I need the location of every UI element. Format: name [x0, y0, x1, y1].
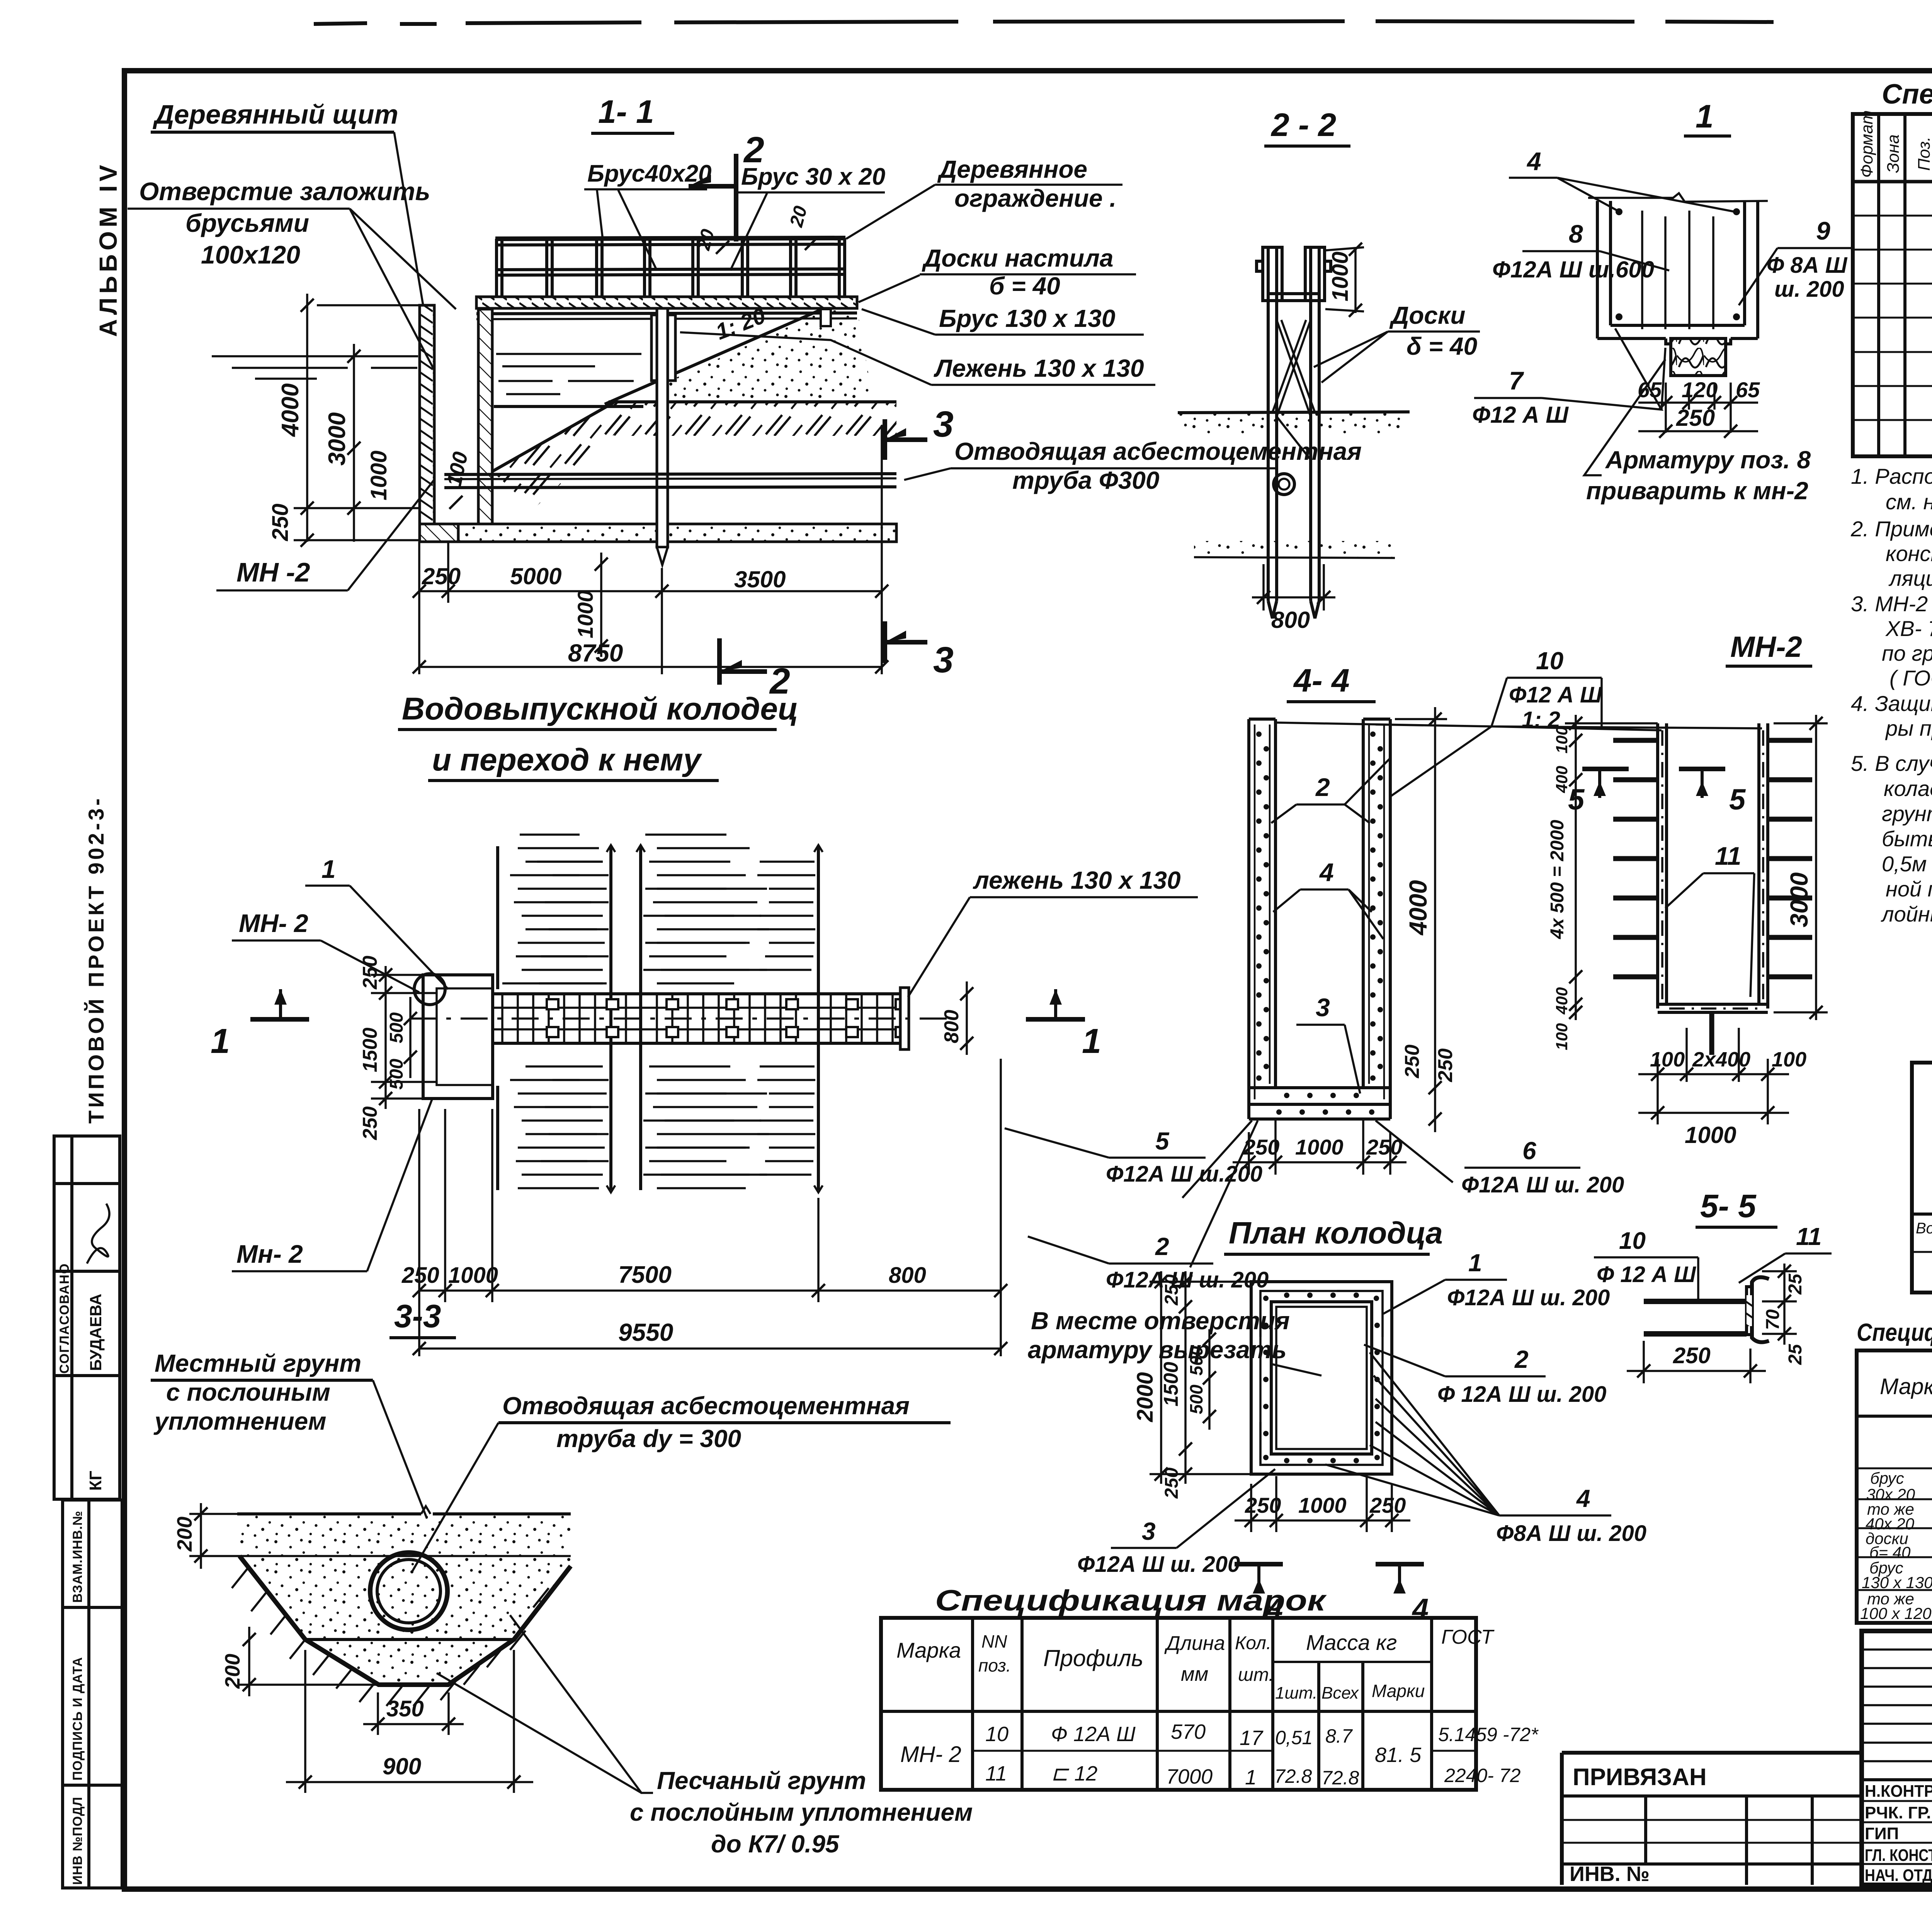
svg-text:и переход к нему: и переход к нему [432, 742, 702, 777]
svg-text:4000: 4000 [277, 383, 304, 437]
svg-text:570: 570 [1171, 1720, 1206, 1743]
dam wall vertical lines [498, 846, 818, 1190]
4-4 rebar dots right wall [1370, 731, 1383, 1081]
svg-text:11: 11 [985, 1762, 1007, 1785]
title block left grid rows [1862, 1650, 1932, 1761]
rebar dots [1616, 208, 1740, 320]
svg-text:7000: 7000 [1166, 1765, 1213, 1788]
МН-2 channel plates [1658, 723, 1768, 1012]
5-5 bars [1644, 1299, 1747, 1304]
svg-text:Брус 30 х 20: Брус 30 х 20 [741, 163, 885, 190]
svg-text:1: 1 [1696, 98, 1714, 134]
svg-text:1- 1: 1- 1 [598, 94, 654, 130]
svg-text:уплотнением: уплотнением [153, 1407, 327, 1435]
svg-text:лежень 130 х 130: лежень 130 х 130 [973, 866, 1181, 894]
svg-text:6: 6 [1522, 1137, 1536, 1165]
svg-text:1: 1 [1082, 1022, 1101, 1061]
axis dashes through walkway [410, 1017, 951, 1020]
top dashed trim line [314, 21, 1774, 24]
svg-text:3: 3 [933, 639, 954, 680]
svg-text:17: 17 [1240, 1726, 1264, 1750]
3-3 dim 350 [377, 1692, 379, 1735]
svg-text:4х 500 = 2000: 4х 500 = 2000 [1547, 820, 1568, 939]
svg-text:δ = 40: δ = 40 [1406, 332, 1477, 360]
svg-text:брусьями: брусьями [185, 209, 309, 237]
svg-text:8: 8 [1569, 219, 1583, 248]
svg-text:7500: 7500 [618, 1262, 672, 1288]
3-3 slope hatch marks [232, 1569, 568, 1706]
МН-2 dim 1000 [1638, 1112, 1789, 1114]
pile squares on walkway [547, 999, 907, 1037]
svg-text:1шт.: 1шт. [1275, 1684, 1317, 1702]
4-4 left wall [1249, 719, 1276, 1104]
svg-text:250: 250 [1434, 1048, 1457, 1082]
svg-text:ВЗАМ.ИНВ.№: ВЗАМ.ИНВ.№ [70, 1510, 85, 1603]
svg-text:3500: 3500 [734, 566, 786, 592]
svg-text:МН- 2: МН- 2 [900, 1742, 961, 1767]
svg-text:70: 70 [1763, 1309, 1783, 1330]
svg-text:Ф12А Ш ш.200: Ф12А Ш ш.200 [1106, 1162, 1262, 1187]
svg-text:КГ: КГ [86, 1471, 105, 1491]
svg-text:Ф 12А Ш ш. 200: Ф 12А Ш ш. 200 [1437, 1382, 1606, 1407]
svg-text:1: 1 [1468, 1249, 1482, 1277]
svg-text:250: 250 [359, 1106, 381, 1140]
right pile [1311, 253, 1319, 618]
left cap channel [1257, 247, 1282, 301]
svg-text:100: 100 [1772, 1048, 1806, 1071]
svg-text:3: 3 [1316, 993, 1330, 1022]
svg-text:Спецификация марок: Спецификация марок [935, 1584, 1327, 1617]
svg-text:БУДАЕВА: БУДАЕВА [87, 1294, 105, 1371]
svg-text:100х120: 100х120 [201, 240, 300, 269]
svg-text:Ф12А Ш ш. 200: Ф12А Ш ш. 200 [1447, 1285, 1610, 1310]
svg-text:9550: 9550 [618, 1318, 673, 1346]
svg-text:5000: 5000 [510, 563, 561, 589]
svg-text:1000: 1000 [448, 1263, 498, 1288]
railing top rail [495, 238, 845, 239]
water level lines outside [212, 356, 418, 379]
svg-text:1: 1 [211, 1022, 230, 1061]
outlet pipe lines [444, 474, 896, 474]
svg-text:250: 250 [1245, 1493, 1281, 1517]
svg-text:2. Примечания по деревянным: 2. Примечания по деревянным [1850, 517, 1932, 541]
excavation slope line [492, 403, 614, 471]
svg-text:Брус 130 х 130: Брус 130 х 130 [939, 304, 1115, 332]
svg-text:Спецификация элементов к марк: Спецификация элементов к маркировочным с… [1857, 1318, 1932, 1346]
svg-text:2: 2 [1155, 1233, 1169, 1260]
signature squiggle in upper stamp [87, 1204, 109, 1264]
beam between caps [1268, 292, 1319, 295]
svg-text:1. Расположение сооружений: 1. Расположение сооружений [1851, 464, 1932, 488]
lejen bar at right end [900, 988, 909, 1049]
left margin upper stamp box [54, 1136, 120, 1499]
svg-text:250: 250 [1676, 405, 1715, 431]
svg-text:труба Ф300: труба Ф300 [1012, 466, 1159, 494]
svg-text:РЧК. ГР.: РЧК. ГР. [1865, 1803, 1931, 1822]
svg-text:1500: 1500 [1160, 1362, 1182, 1406]
svg-text:500: 500 [386, 1012, 407, 1043]
svg-text:100: 100 [1650, 1048, 1685, 1071]
МН-2 studs right [1768, 740, 1812, 977]
dim 4x500 arrow line to MH-2 top [1600, 678, 1603, 726]
svg-text:1: 1 [1245, 1766, 1257, 1789]
embankment slope line 1:20 [605, 309, 822, 404]
plan bottom dims [419, 1059, 1001, 1356]
svg-text:Формат: Формат [1857, 110, 1876, 178]
dim 1000 (2-2) [1354, 247, 1357, 313]
left dim chain 4000 [306, 294, 308, 542]
svg-text:Всех: Всех [1321, 1684, 1359, 1702]
svg-text:ляции см. на К Ж-1.: ляции см. на К Ж-1. [1888, 566, 1932, 590]
план corner bars [1260, 1291, 1383, 1465]
svg-text:б = 40: б = 40 [989, 272, 1060, 300]
svg-text:Ф12 А Ш: Ф12 А Ш [1509, 682, 1602, 707]
svg-text:Лежень 130 х 130: Лежень 130 х 130 [934, 354, 1144, 382]
svg-text:ГЛ. КОНСТ: ГЛ. КОНСТ [1865, 1846, 1932, 1865]
svg-text:250: 250 [268, 503, 293, 541]
svg-text:с послойным уплотнением: с послойным уплотнением [630, 1798, 973, 1826]
svg-text:5. В случае опирания: 5. В случае опирания [1851, 751, 1932, 776]
МН-2 stud bottom [1709, 1012, 1714, 1055]
svg-text:ИНВ. №: ИНВ. № [1570, 1862, 1650, 1886]
МН-2 dash-dot centerlines [1662, 730, 1763, 1009]
svg-text:ш. 200: ш. 200 [1774, 277, 1844, 302]
svg-text:Доски: Доски [1389, 301, 1465, 329]
svg-text:шт.: шт. [1238, 1665, 1274, 1685]
left pile [1268, 253, 1277, 618]
4-4 rebar dots left wall [1256, 731, 1269, 1081]
МН-2 left dim chain [1575, 715, 1577, 1020]
witness lines left dims [294, 507, 420, 509]
railing mid rail [495, 269, 845, 270]
svg-text:Ф12А Ш ш. 200: Ф12А Ш ш. 200 [1461, 1172, 1624, 1197]
ground line right part [609, 400, 896, 403]
svg-text:25: 25 [1785, 1273, 1806, 1295]
svg-text:4: 4 [1412, 1593, 1429, 1626]
spec table grid [1853, 114, 1932, 456]
reed hatch left of centre walls (upper) [502, 862, 815, 983]
svg-text:0,51: 0,51 [1275, 1727, 1313, 1748]
svg-text:800: 800 [889, 1263, 926, 1288]
deck planks hatched [476, 297, 857, 308]
svg-text:1000: 1000 [1685, 1122, 1736, 1148]
svg-text:5.1459 -72*: 5.1459 -72* [1438, 1724, 1539, 1745]
plan left dims 250/1500/250 [371, 966, 437, 1109]
3-3 top ground line with break [237, 1512, 421, 1515]
5-5 channel profile [1752, 1277, 1769, 1342]
svg-text:ры принять 20мм.: ры принять 20мм. [1885, 716, 1932, 740]
svg-text:1000: 1000 [1295, 1135, 1344, 1159]
svg-text:Масса кг: Масса кг [1306, 1630, 1397, 1655]
план left dim 2000 [1160, 1271, 1162, 1484]
right cap channel [1305, 247, 1331, 301]
embed block hatched [1671, 338, 1726, 376]
svg-text:НАЧ. ОТД.: НАЧ. ОТД. [1865, 1866, 1932, 1885]
svg-text:Арматуру поз. 8: Арматуру поз. 8 [1605, 446, 1811, 474]
reed hatch (lower) [518, 1066, 815, 1175]
svg-text:4: 4 [1576, 1485, 1590, 1512]
svg-text:коладца на глинистый: коладца на глинистый [1884, 776, 1932, 801]
3-3 dim 200 upper [200, 1503, 202, 1569]
plan inner dims 500/500 [409, 997, 412, 1078]
svg-text:ограждение .: ограждение . [954, 184, 1116, 212]
3-3 trench outline [240, 1556, 571, 1685]
svg-text:11: 11 [1796, 1223, 1821, 1250]
svg-text:Брус40х20: Брус40х20 [587, 160, 712, 187]
svg-text:500: 500 [1186, 1384, 1206, 1414]
svg-text:Зона: Зона [1884, 134, 1903, 173]
svg-text:Н.КОНТР.: Н.КОНТР. [1865, 1782, 1932, 1801]
svg-text:8750: 8750 [568, 639, 623, 667]
lower dotted band [1194, 541, 1395, 557]
svg-text:250: 250 [1162, 1274, 1182, 1306]
svg-text:Ф12А Ш ш. 200: Ф12А Ш ш. 200 [1077, 1552, 1240, 1577]
soil hatch wedge along excavation slope [492, 403, 649, 509]
svg-text:грунт, последний должен: грунт, последний должен [1882, 801, 1932, 826]
svg-text:поз.: поз. [978, 1655, 1011, 1675]
bottom dim 8750 [419, 666, 882, 668]
выборка grid [1912, 1063, 1932, 1293]
svg-text:250: 250 [422, 563, 461, 589]
bottom dim chain 250/5000/3500 [418, 542, 420, 674]
wooden shield wall (left) with ladder hatch [420, 305, 434, 542]
bottom slab stippled [458, 524, 896, 542]
svg-text:Водовыпускной колодец: Водовыпускной колодец [402, 691, 798, 726]
МН-2 studs left [1613, 740, 1658, 977]
svg-text:Отводящая асбестоцементная: Отводящая асбестоцементная [954, 437, 1362, 465]
svg-text:5: 5 [1729, 783, 1746, 816]
МН-2 bottom dims 100/2x400/100 [1638, 1028, 1789, 1124]
svg-text:МН -2: МН -2 [236, 557, 310, 587]
svg-text:350: 350 [386, 1696, 424, 1721]
svg-text:быть вынут на глубину: быть вынут на глубину [1882, 827, 1932, 851]
section mark 2 bottom [717, 638, 722, 685]
svg-text:4: 4 [1526, 147, 1541, 175]
water level lines inside basin [496, 354, 641, 394]
svg-text:ГОСТ: ГОСТ [1441, 1626, 1495, 1648]
svg-text:( ГОСТ 9355-60): ( ГОСТ 9355-60) [1889, 666, 1932, 690]
svg-text:10: 10 [1536, 647, 1563, 675]
title block personnel [1865, 1782, 1932, 1885]
svg-text:500: 500 [1186, 1346, 1206, 1376]
план bottom dims 250/1000/250 [1235, 1476, 1410, 1532]
svg-text:труба dy = 300: труба dy = 300 [556, 1425, 741, 1452]
left margin lower stamp box [63, 1500, 122, 1888]
svg-text:250: 250 [401, 1263, 439, 1288]
section mark 1 left [250, 1017, 309, 1022]
dim 250 (detail 1) [1638, 430, 1758, 432]
svg-text:ПОДПИСЬ И ДАТА: ПОДПИСЬ И ДАТА [70, 1657, 85, 1781]
4-4 leaders from bottom corners to labels below [1182, 1121, 1258, 1267]
4-4 right wall [1363, 719, 1390, 1104]
svg-text:Длина: Длина [1164, 1632, 1225, 1655]
svg-text:500: 500 [386, 1059, 407, 1090]
svg-text:Водовыпускной: Водовыпускной [1916, 1220, 1932, 1237]
svg-text:1500: 1500 [359, 1027, 381, 1072]
stipple fill above slope [657, 308, 873, 402]
svg-text:200: 200 [173, 1517, 196, 1552]
svg-text:72.8: 72.8 [1274, 1765, 1312, 1787]
svg-text:3000: 3000 [1785, 872, 1813, 927]
svg-text:ГИП: ГИП [1865, 1824, 1899, 1843]
svg-text:Ф 12А Ш: Ф 12А Ш [1051, 1723, 1136, 1746]
svg-text:Ф 8А Ш: Ф 8А Ш [1767, 253, 1848, 278]
svg-text:2 - 2: 2 - 2 [1270, 107, 1336, 143]
svg-text:3: 3 [933, 404, 954, 445]
svg-text:10: 10 [985, 1723, 1009, 1746]
svg-text:25: 25 [1785, 1344, 1806, 1365]
3-3 dim 900 [304, 1650, 306, 1793]
svg-text:Марки: Марки [1372, 1681, 1425, 1701]
svg-text:с послоиным: с послоиным [166, 1378, 330, 1406]
svg-text:10: 10 [1619, 1228, 1646, 1254]
detail walls U-shape [1597, 201, 1758, 338]
svg-text:Ф 12 А Ш: Ф 12 А Ш [1597, 1262, 1696, 1287]
svg-text:8.7: 8.7 [1325, 1725, 1353, 1747]
svg-text:лойным уплотнением.: лойным уплотнением. [1881, 902, 1932, 926]
svg-text:Марка: Марка [1880, 1374, 1932, 1399]
svg-text:Ф8А Ш ш. 200: Ф8А Ш ш. 200 [1496, 1521, 1646, 1546]
svg-text:Песчаный грунт: Песчаный грунт [657, 1767, 866, 1794]
3-3 dim 200 lower [248, 1627, 250, 1696]
svg-text:Кол.: Кол. [1235, 1633, 1271, 1653]
svg-text:Профиль: Профиль [1043, 1645, 1143, 1671]
shield footer [420, 524, 458, 542]
svg-text:72.8: 72.8 [1321, 1767, 1359, 1789]
svg-text:см. на листах КГ -: см. на листах КГ - [1886, 490, 1932, 514]
cross bracing [1272, 320, 1315, 460]
svg-text:Марка: Марка [896, 1638, 961, 1662]
svg-text:2: 2 [1514, 1345, 1529, 1373]
well circle MH-2 [414, 974, 445, 1005]
план dims 500/500 [1208, 1329, 1211, 1430]
svg-text:4: 4 [1319, 858, 1334, 886]
svg-text:250: 250 [1673, 1343, 1711, 1368]
svg-text:Местный грунт: Местный грунт [155, 1349, 361, 1377]
план rebar dots around walls [1263, 1293, 1380, 1463]
svg-text:Ф12 А Ш: Ф12 А Ш [1472, 402, 1569, 428]
pipe circle [1274, 474, 1294, 495]
svg-text:120: 120 [1682, 378, 1718, 402]
marking spec grid [1857, 1350, 1932, 1623]
план left dims 250/1500/250 [1184, 1271, 1187, 1484]
svg-text:130 х 130: 130 х 130 [1862, 1573, 1932, 1592]
concrete wall (hatched) [478, 309, 492, 524]
svg-text:NN: NN [981, 1631, 1007, 1651]
svg-text:7: 7 [1509, 366, 1524, 395]
top break line [1588, 193, 1768, 202]
svg-text:до К7/ 0.95: до К7/ 0.95 [711, 1830, 840, 1858]
svg-text:11: 11 [1715, 842, 1742, 870]
section mark 3 right upper [883, 419, 887, 460]
walkway rungs [502, 994, 893, 1043]
svg-text:ной подушкой с пос-: ной подушкой с пос- [1886, 877, 1932, 901]
section mark 3 right lower [883, 621, 887, 663]
svg-text:900: 900 [383, 1753, 421, 1779]
svg-text:МН-2: МН-2 [1730, 631, 1802, 663]
МН-2 section marks 5 [1582, 767, 1629, 771]
3-3 soil body stippled [240, 1514, 571, 1685]
4-4 dim 250 right [1429, 1081, 1442, 1094]
4-4 bottom slab [1249, 1088, 1390, 1119]
svg-text:ИНВ №ПОДЛ: ИНВ №ПОДЛ [70, 1797, 85, 1885]
svg-text:арматуру вырезать: арматуру вырезать [1028, 1336, 1287, 1364]
svg-text:2000: 2000 [1133, 1372, 1158, 1422]
3-3 pipe double circle [370, 1553, 447, 1630]
svg-text:3000: 3000 [324, 412, 350, 466]
марок grid [881, 1618, 1476, 1790]
4-4 bottom dims 250/1000/250 [1233, 1121, 1406, 1175]
svg-text:800: 800 [940, 1010, 963, 1043]
soil hatch band right [614, 403, 896, 436]
svg-text:План колодца: План колодца [1229, 1216, 1443, 1250]
svg-text:Деревянный щит: Деревянный щит [153, 99, 398, 129]
well box (plan) [423, 975, 493, 1099]
svg-text:Доски настила: Доски настила [922, 244, 1113, 272]
svg-text:4. Защитный слой армату-: 4. Защитный слой армату- [1851, 691, 1932, 716]
svg-text:9: 9 [1816, 216, 1830, 245]
svg-text:брус: брус [1870, 1469, 1904, 1487]
break marks on walls [607, 845, 823, 852]
svg-text:СОГЛАСОВАНО: СОГЛАСОВАНО [57, 1263, 72, 1374]
svg-text:1000: 1000 [366, 451, 391, 500]
svg-text:1000: 1000 [1328, 252, 1353, 301]
svg-text:ПРИВЯЗАН: ПРИВЯЗАН [1573, 1764, 1707, 1791]
svg-text:5: 5 [1155, 1127, 1170, 1155]
svg-text:100 х 120: 100 х 120 [1860, 1604, 1932, 1622]
5-5 dims 25/70/25 [1762, 1270, 1797, 1272]
svg-text:800: 800 [1271, 607, 1310, 633]
svg-text:400: 400 [1553, 987, 1571, 1015]
pile (timber) in section [651, 315, 675, 381]
svg-text:2х400: 2х400 [1692, 1048, 1750, 1071]
5-5 dim 250 [1643, 1341, 1645, 1383]
svg-text:5: 5 [1568, 783, 1585, 816]
dim 800 (2-2 bottom) [1262, 564, 1265, 611]
left dim 250 [301, 534, 314, 547]
svg-text:100: 100 [1553, 726, 1571, 753]
svg-text:3. МН-2 окрасить ла ком: 3. МН-2 окрасить ла ком [1851, 592, 1932, 616]
svg-text:3-3: 3-3 [394, 1298, 441, 1334]
svg-text:МН- 2: МН- 2 [239, 909, 308, 937]
basin floor line [494, 405, 643, 408]
svg-text:250: 250 [1369, 1493, 1406, 1517]
МН-2 right dim 3000 [1815, 715, 1817, 1020]
svg-text:мм: мм [1181, 1663, 1208, 1685]
svg-text:1: 1 [321, 855, 336, 883]
svg-text:2: 2 [1315, 773, 1330, 801]
svg-text:100: 100 [1553, 1023, 1571, 1050]
svg-text:65: 65 [1736, 378, 1760, 402]
svg-text:250: 250 [1162, 1468, 1182, 1499]
vertical dim 1000 at pile [600, 553, 602, 657]
svg-text:250: 250 [1401, 1044, 1423, 1078]
план section marks 4 [1235, 1562, 1283, 1566]
svg-text:Отводящая асбестоцементная: Отводящая асбестоцементная [502, 1392, 910, 1420]
4-4 dim 4000 [1434, 707, 1436, 1132]
svg-text:1000: 1000 [573, 590, 597, 638]
small post right on deck [821, 309, 831, 326]
svg-text:ХВ- 78 4 ( ГОСТ 7313- 7.5*): ХВ- 78 4 ( ГОСТ 7313- 7.5*) [1885, 616, 1932, 641]
svg-text:1000: 1000 [1298, 1493, 1347, 1517]
svg-text:Мн- 2: Мн- 2 [236, 1240, 303, 1268]
ground line and dotted band [1178, 412, 1410, 413]
svg-text:Отверстие заложить: Отверстие заложить [139, 177, 430, 206]
svg-text:Поз.: Поз. [1915, 136, 1932, 171]
svg-text:Деревянное: Деревянное [937, 155, 1087, 183]
railing posts [497, 238, 845, 297]
svg-text:4- 4: 4- 4 [1293, 662, 1350, 699]
